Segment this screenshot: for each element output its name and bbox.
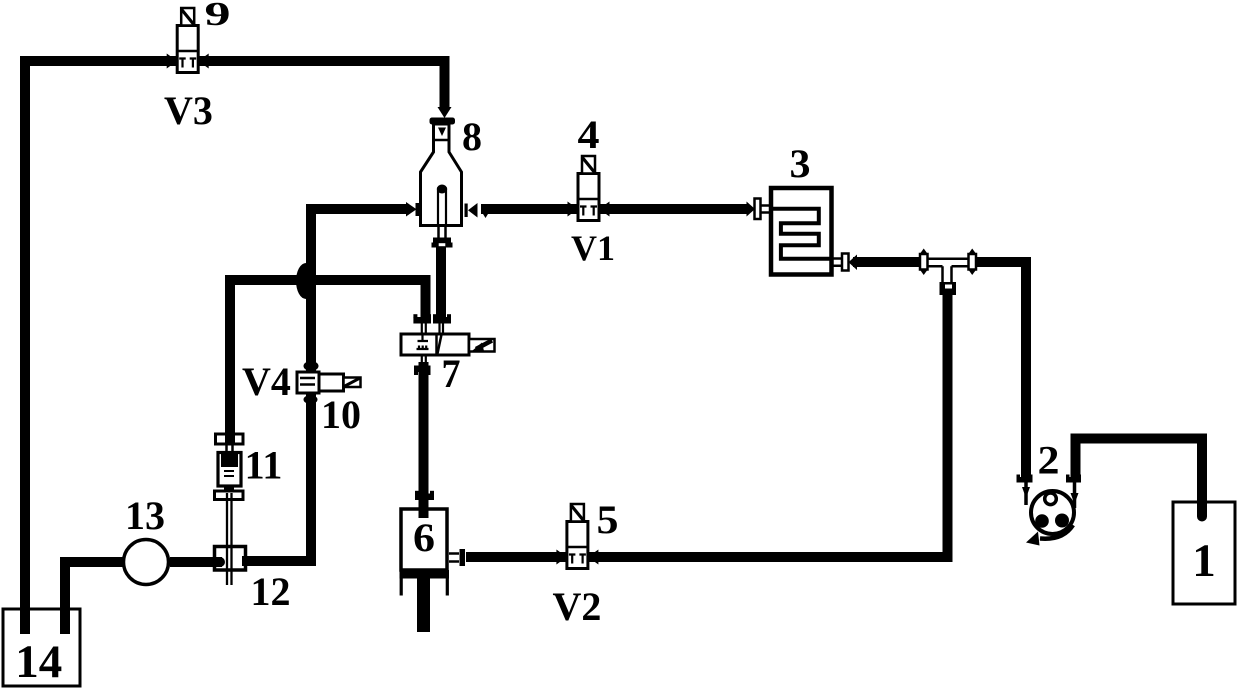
svg-text:8: 8 [462, 114, 482, 159]
svg-text:12: 12 [251, 569, 291, 614]
svg-text:2: 2 [1038, 438, 1060, 483]
svg-text:V4: V4 [242, 359, 291, 404]
svg-text:V3: V3 [164, 88, 213, 133]
svg-text:7: 7 [442, 351, 461, 396]
svg-text:V2: V2 [553, 584, 602, 629]
svg-text:1: 1 [1192, 535, 1216, 587]
svg-text:5: 5 [597, 497, 619, 542]
svg-text:13: 13 [125, 493, 165, 538]
svg-text:11: 11 [245, 443, 283, 488]
svg-text:4: 4 [578, 112, 600, 157]
svg-text:9: 9 [205, 0, 231, 33]
svg-text:14: 14 [15, 636, 62, 688]
svg-text:V1: V1 [571, 228, 615, 268]
svg-text:6: 6 [413, 515, 435, 560]
svg-text:10: 10 [321, 392, 361, 437]
svg-text:3: 3 [790, 141, 811, 186]
